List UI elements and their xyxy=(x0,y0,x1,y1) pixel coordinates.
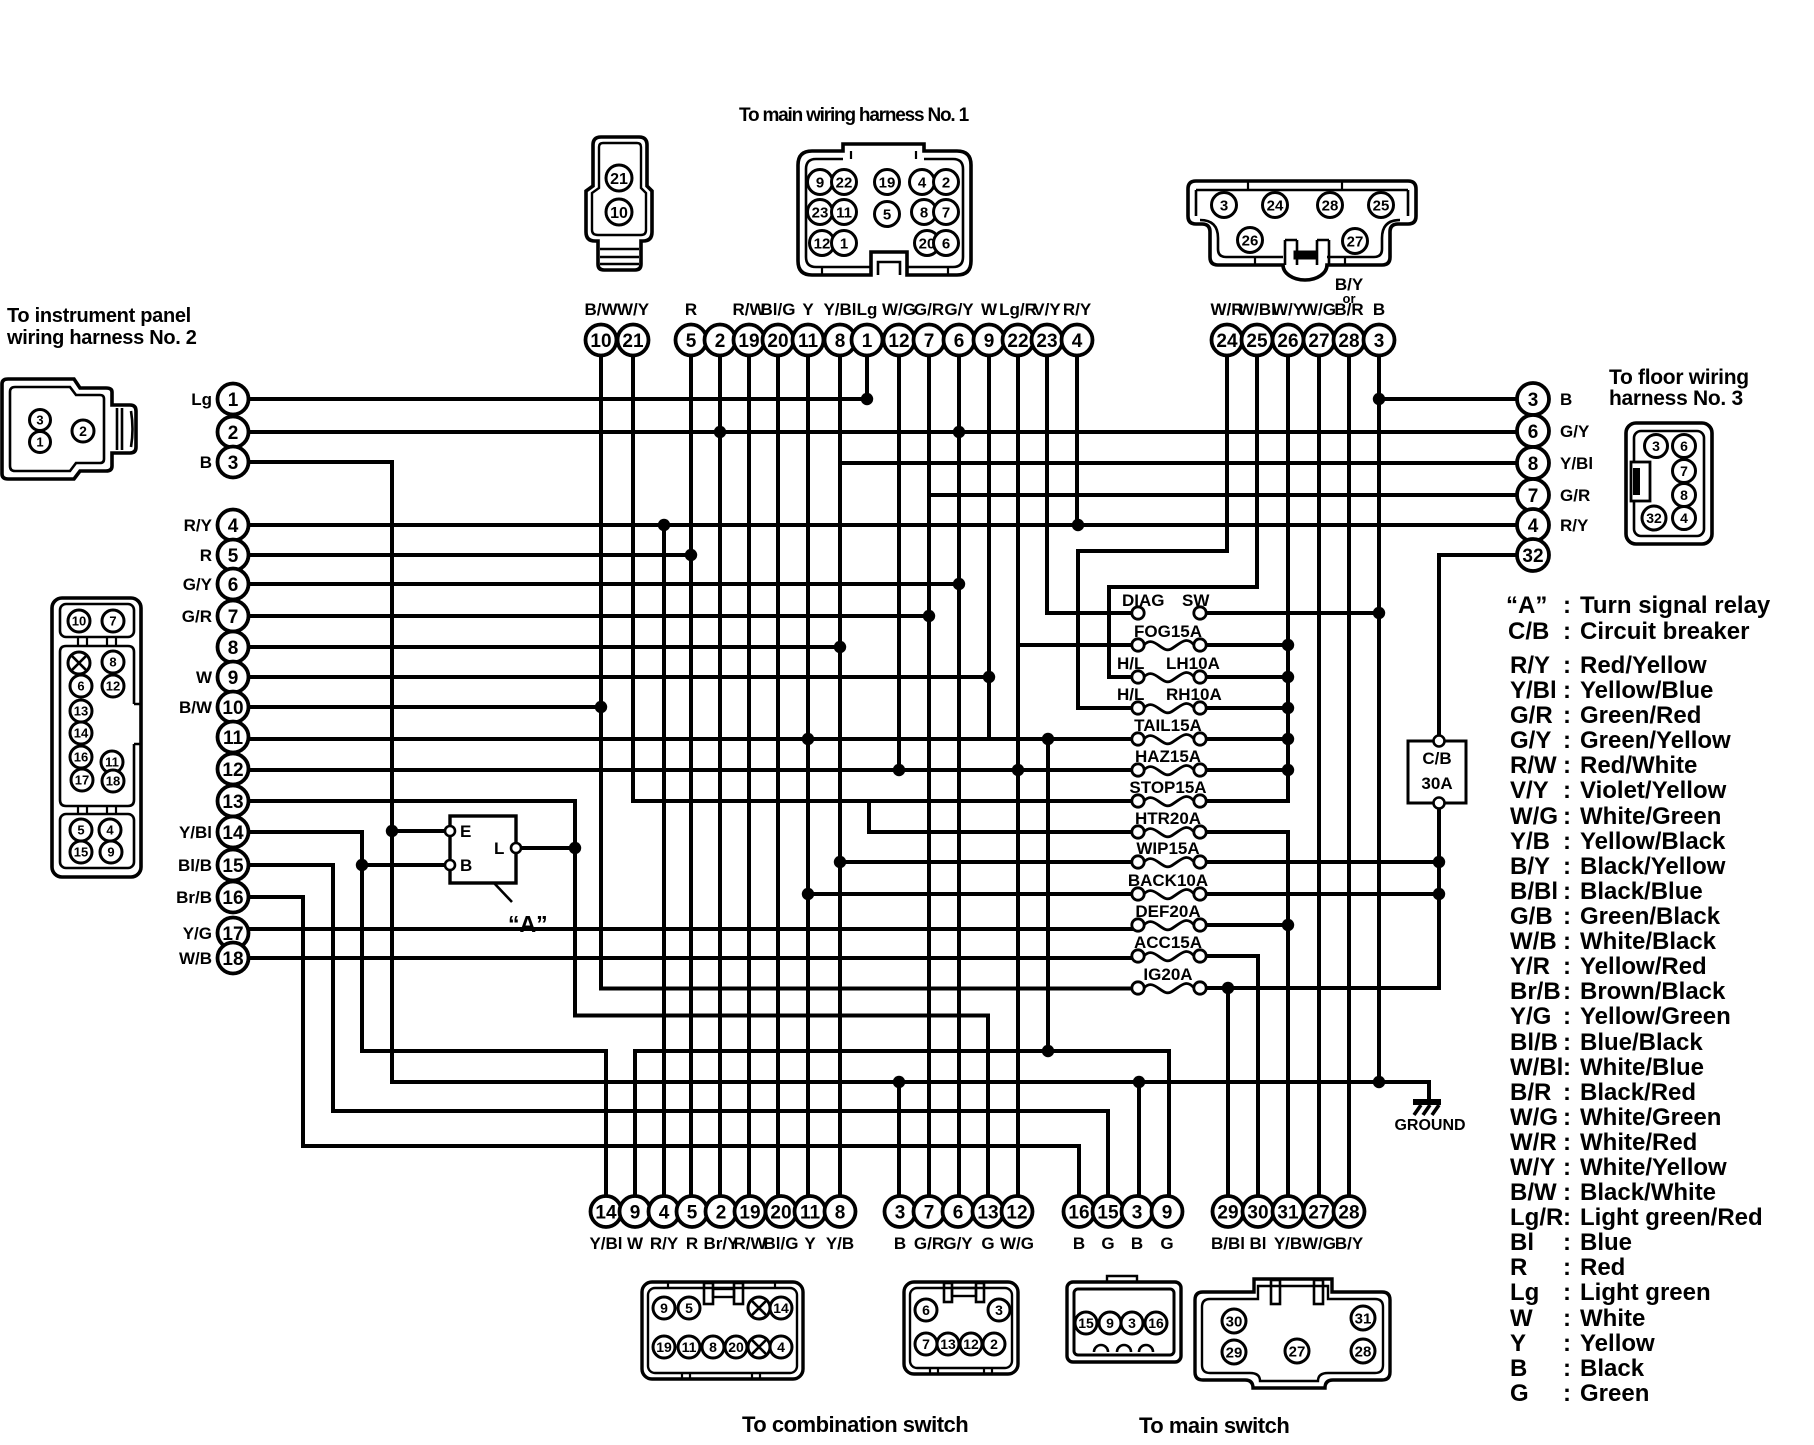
svg-text:White/Yellow: White/Yellow xyxy=(1580,1154,1727,1181)
svg-text:5: 5 xyxy=(685,1300,693,1316)
svg-text:V/Y: V/Y xyxy=(1033,300,1061,319)
svg-text:Br/B: Br/B xyxy=(176,888,212,907)
svg-text::: : xyxy=(1563,677,1571,704)
svg-text:Y/R: Y/R xyxy=(1510,953,1550,980)
svg-text:30A: 30A xyxy=(1421,774,1452,793)
svg-text:Yellow/Blue: Yellow/Blue xyxy=(1580,677,1713,704)
svg-text:31: 31 xyxy=(1355,1310,1372,1327)
svg-text:11: 11 xyxy=(798,331,819,352)
svg-text:“A”: “A” xyxy=(1506,592,1547,619)
svg-text::: : xyxy=(1563,1229,1571,1256)
svg-text:G/R: G/R xyxy=(182,607,212,626)
svg-text:IG20A: IG20A xyxy=(1143,965,1192,984)
svg-text::: : xyxy=(1563,618,1571,645)
svg-text:G/R: G/R xyxy=(1560,486,1590,505)
svg-text:11: 11 xyxy=(800,1202,821,1223)
svg-text:20: 20 xyxy=(728,1339,744,1355)
svg-text:B/W: B/W xyxy=(179,698,213,717)
svg-text:19: 19 xyxy=(738,331,759,352)
svg-text:Br/B: Br/B xyxy=(1510,978,1561,1005)
svg-text:B/Bl: B/Bl xyxy=(1211,1234,1245,1253)
svg-text::: : xyxy=(1563,1279,1571,1306)
svg-text:26: 26 xyxy=(1242,232,1259,249)
svg-text:R/Y: R/Y xyxy=(1063,300,1092,319)
svg-text:1: 1 xyxy=(36,435,43,450)
svg-text:9: 9 xyxy=(228,668,239,689)
svg-text:3: 3 xyxy=(228,453,239,474)
svg-text:29: 29 xyxy=(1217,1202,1238,1223)
svg-text:3: 3 xyxy=(895,1202,906,1223)
svg-text:3: 3 xyxy=(36,413,43,428)
svg-text:32: 32 xyxy=(1522,546,1543,567)
svg-text:G/Y: G/Y xyxy=(1560,422,1590,441)
svg-text:14: 14 xyxy=(773,1300,789,1316)
svg-text::: : xyxy=(1563,828,1571,855)
svg-text::: : xyxy=(1563,1380,1571,1407)
svg-text::: : xyxy=(1563,903,1571,930)
svg-text:TAIL15A: TAIL15A xyxy=(1134,716,1202,735)
svg-text:4: 4 xyxy=(1072,331,1083,352)
svg-text:G/R: G/R xyxy=(1510,702,1553,729)
svg-text:12: 12 xyxy=(222,760,243,781)
svg-text:Black/White: Black/White xyxy=(1580,1179,1716,1206)
svg-text:24: 24 xyxy=(1267,197,1284,214)
svg-text:23: 23 xyxy=(812,204,829,221)
svg-text:6: 6 xyxy=(1680,438,1688,454)
svg-text::: : xyxy=(1563,1154,1571,1181)
svg-text:3: 3 xyxy=(1132,1202,1143,1223)
svg-text:8: 8 xyxy=(709,1339,717,1355)
svg-text:15: 15 xyxy=(1078,1315,1094,1331)
svg-text:Black/Red: Black/Red xyxy=(1580,1079,1696,1106)
svg-text::: : xyxy=(1563,1129,1571,1156)
svg-text:W/G: W/G xyxy=(1302,1234,1336,1253)
svg-text::: : xyxy=(1563,1054,1571,1081)
svg-text:B/R: B/R xyxy=(1510,1079,1551,1106)
svg-text:W: W xyxy=(196,668,213,687)
svg-text:2: 2 xyxy=(79,423,87,439)
svg-text:6: 6 xyxy=(228,575,239,596)
svg-text:6: 6 xyxy=(953,1202,964,1223)
svg-text::: : xyxy=(1563,928,1571,955)
svg-text::: : xyxy=(1563,777,1571,804)
svg-text:21: 21 xyxy=(610,171,628,188)
svg-text:RH10A: RH10A xyxy=(1166,685,1222,704)
svg-text:Black: Black xyxy=(1580,1355,1645,1382)
svg-text:Lg/R: Lg/R xyxy=(999,300,1037,319)
svg-text:23: 23 xyxy=(1036,331,1057,352)
svg-text:29: 29 xyxy=(1226,1344,1243,1361)
svg-text:R/Y: R/Y xyxy=(1510,652,1550,679)
svg-text:G/Y: G/Y xyxy=(183,575,213,594)
svg-text:4: 4 xyxy=(1528,516,1539,537)
svg-text:Bl/B: Bl/B xyxy=(178,856,212,875)
svg-text::: : xyxy=(1563,803,1571,830)
svg-text:White/Red: White/Red xyxy=(1580,1129,1697,1156)
svg-text:19: 19 xyxy=(879,174,896,191)
svg-text:12: 12 xyxy=(1006,1202,1027,1223)
svg-text:12: 12 xyxy=(106,679,120,694)
svg-text:30: 30 xyxy=(1247,1202,1268,1223)
svg-text:4: 4 xyxy=(1680,510,1688,526)
svg-text:9: 9 xyxy=(1162,1202,1173,1223)
svg-text:To combination switch: To combination switch xyxy=(742,1412,968,1437)
svg-text:Black/Blue: Black/Blue xyxy=(1580,878,1703,905)
svg-text:STOP15A: STOP15A xyxy=(1129,778,1206,797)
svg-text:13: 13 xyxy=(222,792,243,813)
svg-text:WIP15A: WIP15A xyxy=(1136,839,1199,858)
svg-text:7: 7 xyxy=(942,204,950,221)
svg-text:1: 1 xyxy=(862,331,873,352)
svg-text:HAZ15A: HAZ15A xyxy=(1135,747,1201,766)
svg-text:Green: Green xyxy=(1580,1380,1649,1407)
svg-text:Yellow: Yellow xyxy=(1580,1330,1655,1357)
svg-text:Lg: Lg xyxy=(191,390,212,409)
svg-text:W/Y: W/Y xyxy=(1510,1154,1555,1181)
svg-text:9: 9 xyxy=(107,845,114,860)
svg-text:27: 27 xyxy=(1308,1202,1329,1223)
svg-text:W/G: W/G xyxy=(1510,803,1558,830)
svg-text:3: 3 xyxy=(1220,197,1228,214)
svg-text:31: 31 xyxy=(1277,1202,1299,1223)
svg-text:Green/Red: Green/Red xyxy=(1580,702,1701,729)
svg-text:12: 12 xyxy=(963,1336,979,1352)
svg-text:7: 7 xyxy=(1528,486,1539,507)
svg-text:6: 6 xyxy=(922,1302,930,1318)
svg-text:Bl: Bl xyxy=(1510,1229,1534,1256)
svg-text:15: 15 xyxy=(1097,1202,1119,1223)
svg-text:G/R: G/R xyxy=(914,1234,944,1253)
svg-text:HTR20A: HTR20A xyxy=(1135,809,1201,828)
svg-text:G: G xyxy=(1160,1234,1173,1253)
svg-text:8: 8 xyxy=(835,331,846,352)
svg-text:B/Bl: B/Bl xyxy=(1510,878,1558,905)
svg-text:20: 20 xyxy=(770,1202,791,1223)
svg-text::: : xyxy=(1563,978,1571,1005)
svg-text:Turn signal relay: Turn signal relay xyxy=(1580,592,1771,619)
svg-text:Blue/Black: Blue/Black xyxy=(1580,1029,1703,1056)
svg-text:White/Blue: White/Blue xyxy=(1580,1054,1704,1081)
svg-text:6: 6 xyxy=(1528,422,1539,443)
svg-text:27: 27 xyxy=(1289,1343,1306,1360)
svg-text:Brown/Black: Brown/Black xyxy=(1580,978,1726,1005)
svg-text:Light green/Red: Light green/Red xyxy=(1580,1204,1763,1231)
svg-text:B: B xyxy=(1131,1234,1143,1253)
svg-text:21: 21 xyxy=(622,331,644,352)
svg-text:14: 14 xyxy=(595,1202,617,1223)
svg-text:1: 1 xyxy=(228,390,239,411)
svg-text:3: 3 xyxy=(1652,438,1660,454)
svg-text:5: 5 xyxy=(686,331,697,352)
svg-text:Y: Y xyxy=(804,1234,816,1253)
svg-text:Y/B: Y/B xyxy=(1274,1234,1302,1253)
svg-text:E: E xyxy=(460,822,471,841)
svg-text:26: 26 xyxy=(1277,331,1298,352)
svg-text:R: R xyxy=(686,1234,698,1253)
svg-text::: : xyxy=(1563,727,1571,754)
svg-text:B: B xyxy=(1073,1234,1085,1253)
svg-text:B/Y: B/Y xyxy=(1335,1234,1364,1253)
svg-text:Green/Yellow: Green/Yellow xyxy=(1580,727,1731,754)
svg-text:B: B xyxy=(1510,1355,1527,1382)
svg-text:Bl/B: Bl/B xyxy=(1510,1029,1558,1056)
svg-text:12: 12 xyxy=(888,331,909,352)
svg-text:11: 11 xyxy=(105,755,119,770)
svg-text:28: 28 xyxy=(1338,331,1359,352)
svg-text:ACC15A: ACC15A xyxy=(1134,933,1202,952)
svg-text:11: 11 xyxy=(682,1339,697,1355)
svg-text:6: 6 xyxy=(954,331,965,352)
svg-text:16: 16 xyxy=(74,750,88,765)
svg-text:Black/Yellow: Black/Yellow xyxy=(1580,853,1726,880)
svg-text:Bl/G: Bl/G xyxy=(761,300,796,319)
svg-text:White: White xyxy=(1580,1305,1645,1332)
svg-text:BACK10A: BACK10A xyxy=(1128,871,1208,890)
svg-text:W/G: W/G xyxy=(882,300,916,319)
svg-text:C/B: C/B xyxy=(1508,618,1549,645)
svg-text:14: 14 xyxy=(74,726,89,741)
svg-text:22: 22 xyxy=(1007,331,1028,352)
svg-text:2: 2 xyxy=(942,174,950,191)
svg-text:G/R: G/R xyxy=(914,300,944,319)
svg-text:W/R: W/R xyxy=(1510,1129,1557,1156)
svg-text:G/Y: G/Y xyxy=(943,1234,973,1253)
svg-text:8: 8 xyxy=(109,655,116,670)
svg-text::: : xyxy=(1563,1254,1571,1281)
svg-text:9: 9 xyxy=(984,331,995,352)
svg-text:15: 15 xyxy=(74,845,88,860)
svg-text:H/L: H/L xyxy=(1117,685,1144,704)
svg-text:17: 17 xyxy=(75,773,89,788)
svg-text:Y/B: Y/B xyxy=(826,1234,854,1253)
svg-text:14: 14 xyxy=(222,823,244,844)
svg-text:To main wiring harness No. 1: To main wiring harness No. 1 xyxy=(739,105,970,126)
svg-text:6: 6 xyxy=(942,235,950,252)
svg-text:W/Bl: W/Bl xyxy=(1238,300,1276,319)
svg-text:4: 4 xyxy=(918,174,927,191)
svg-text:3: 3 xyxy=(1374,331,1385,352)
svg-text:To instrument panel: To instrument panel xyxy=(7,305,191,327)
svg-text:“A”: “A” xyxy=(508,911,548,937)
svg-text:4: 4 xyxy=(659,1202,670,1223)
svg-text:harness No. 3: harness No. 3 xyxy=(1609,387,1743,410)
svg-text:25: 25 xyxy=(1373,197,1390,214)
svg-text:R/Y: R/Y xyxy=(650,1234,679,1253)
svg-text:R/W: R/W xyxy=(733,1234,767,1253)
svg-text:20: 20 xyxy=(767,331,788,352)
svg-text:2: 2 xyxy=(715,331,726,352)
svg-text:28: 28 xyxy=(1322,197,1339,214)
svg-text:H/L: H/L xyxy=(1117,654,1144,673)
svg-text:wiring harness No. 2: wiring harness No. 2 xyxy=(6,327,197,349)
svg-text:C/B: C/B xyxy=(1422,749,1451,768)
svg-text:White/Green: White/Green xyxy=(1580,803,1721,830)
svg-text::: : xyxy=(1563,752,1571,779)
svg-text:W: W xyxy=(627,1234,644,1253)
svg-text:Lg/R: Lg/R xyxy=(1510,1204,1563,1231)
svg-text::: : xyxy=(1563,853,1571,880)
svg-text:W/Y: W/Y xyxy=(1272,300,1305,319)
svg-text::: : xyxy=(1563,878,1571,905)
svg-text:DEF20A: DEF20A xyxy=(1135,902,1200,921)
svg-text:G: G xyxy=(1101,1234,1114,1253)
svg-text:B/W: B/W xyxy=(1510,1179,1557,1206)
svg-text:13: 13 xyxy=(940,1336,956,1352)
svg-text:Red: Red xyxy=(1580,1254,1625,1281)
svg-text:7: 7 xyxy=(109,614,116,629)
svg-text:R: R xyxy=(200,546,212,565)
svg-text:G/Y: G/Y xyxy=(1510,727,1551,754)
svg-text:2: 2 xyxy=(990,1336,998,1352)
svg-text:8: 8 xyxy=(920,204,928,221)
svg-text:W/Bl: W/Bl xyxy=(1510,1054,1563,1081)
svg-text:Light green: Light green xyxy=(1580,1279,1711,1306)
svg-text::: : xyxy=(1563,1079,1571,1106)
svg-text:Y/Bl: Y/Bl xyxy=(823,300,856,319)
svg-text:7: 7 xyxy=(924,1202,935,1223)
svg-text:W/B: W/B xyxy=(179,949,212,968)
svg-text::: : xyxy=(1563,953,1571,980)
svg-text:27: 27 xyxy=(1347,233,1364,250)
svg-text::: : xyxy=(1563,1305,1571,1332)
svg-text:Green/Black: Green/Black xyxy=(1580,903,1721,930)
svg-text:10: 10 xyxy=(590,331,611,352)
svg-text:3: 3 xyxy=(995,1302,1003,1318)
svg-text::: : xyxy=(1563,1029,1571,1056)
svg-text:11: 11 xyxy=(836,204,852,221)
svg-text:Yellow/Green: Yellow/Green xyxy=(1580,1003,1731,1030)
svg-text:FOG15A: FOG15A xyxy=(1134,622,1202,641)
svg-text:W/B: W/B xyxy=(1510,928,1557,955)
svg-text:R/Y: R/Y xyxy=(184,516,213,535)
svg-text:13: 13 xyxy=(74,704,88,719)
svg-text:Blue: Blue xyxy=(1580,1229,1632,1256)
svg-text:9: 9 xyxy=(630,1202,641,1223)
svg-text:18: 18 xyxy=(106,774,120,789)
svg-text:R/Y: R/Y xyxy=(1560,516,1589,535)
svg-text::: : xyxy=(1563,652,1571,679)
svg-text:4: 4 xyxy=(106,823,114,838)
svg-text:B: B xyxy=(894,1234,906,1253)
svg-text:W/Y: W/Y xyxy=(617,300,650,319)
svg-text:G/Y: G/Y xyxy=(944,300,974,319)
svg-text:16: 16 xyxy=(1148,1315,1164,1331)
svg-text:Violet/Yellow: Violet/Yellow xyxy=(1580,777,1727,804)
svg-text:Red/Yellow: Red/Yellow xyxy=(1580,652,1707,679)
svg-text:Yellow/Red: Yellow/Red xyxy=(1580,953,1707,980)
svg-text:32: 32 xyxy=(1646,510,1662,526)
svg-text:28: 28 xyxy=(1338,1202,1359,1223)
svg-text:3: 3 xyxy=(1128,1315,1136,1331)
svg-text:G: G xyxy=(1510,1380,1529,1407)
svg-text:8: 8 xyxy=(1680,487,1688,503)
svg-text:7: 7 xyxy=(1680,463,1688,479)
svg-text:9: 9 xyxy=(816,174,824,191)
svg-text:8: 8 xyxy=(1528,454,1539,475)
svg-text:SW: SW xyxy=(1182,591,1210,610)
svg-text:DIAG: DIAG xyxy=(1122,591,1165,610)
svg-text:5: 5 xyxy=(883,206,891,223)
svg-text:7: 7 xyxy=(922,1336,930,1352)
svg-text:Red/White: Red/White xyxy=(1580,752,1697,779)
svg-text:9: 9 xyxy=(660,1300,668,1316)
svg-text:G/B: G/B xyxy=(1510,903,1553,930)
svg-text:Y: Y xyxy=(1510,1330,1526,1357)
svg-text:19: 19 xyxy=(739,1202,760,1223)
svg-text:Lg: Lg xyxy=(1510,1279,1539,1306)
svg-text:GROUND: GROUND xyxy=(1394,1117,1465,1134)
svg-text:4: 4 xyxy=(777,1339,785,1355)
svg-text:12: 12 xyxy=(814,235,831,252)
svg-text:Y: Y xyxy=(802,300,814,319)
svg-text:R: R xyxy=(1510,1254,1527,1281)
svg-text:Yellow/Black: Yellow/Black xyxy=(1580,828,1726,855)
svg-text:24: 24 xyxy=(1216,331,1238,352)
svg-text::: : xyxy=(1563,592,1571,619)
svg-text:R/W: R/W xyxy=(1510,752,1557,779)
svg-text:To floor wiring: To floor wiring xyxy=(1609,366,1749,389)
svg-text:W/G: W/G xyxy=(1302,300,1336,319)
svg-text:28: 28 xyxy=(1355,1343,1372,1360)
svg-text::: : xyxy=(1563,1204,1571,1231)
svg-text:8: 8 xyxy=(835,1202,846,1223)
svg-text:5: 5 xyxy=(687,1202,698,1223)
svg-text:15: 15 xyxy=(222,856,244,877)
svg-text:W: W xyxy=(1510,1305,1533,1332)
svg-text::: : xyxy=(1563,1330,1571,1357)
svg-text::: : xyxy=(1563,1179,1571,1206)
svg-text:1: 1 xyxy=(840,235,848,252)
svg-text:B: B xyxy=(1560,390,1572,409)
svg-text:B: B xyxy=(460,856,472,875)
svg-text::: : xyxy=(1563,1104,1571,1131)
svg-text:16: 16 xyxy=(1068,1202,1089,1223)
svg-text:B/Y: B/Y xyxy=(1510,853,1550,880)
svg-text:Lg: Lg xyxy=(857,300,878,319)
svg-text:Circuit breaker: Circuit breaker xyxy=(1580,618,1749,645)
svg-text:25: 25 xyxy=(1246,331,1268,352)
svg-text:10: 10 xyxy=(72,614,86,629)
svg-text:16: 16 xyxy=(222,888,243,909)
svg-text::: : xyxy=(1563,1355,1571,1382)
svg-text:10: 10 xyxy=(222,698,243,719)
svg-text:White/Green: White/Green xyxy=(1580,1104,1721,1131)
svg-text:R: R xyxy=(685,300,697,319)
svg-text:G: G xyxy=(981,1234,994,1253)
svg-text:White/Black: White/Black xyxy=(1580,928,1717,955)
svg-text::: : xyxy=(1563,1003,1571,1030)
svg-text:2: 2 xyxy=(228,423,239,444)
svg-text:27: 27 xyxy=(1308,331,1329,352)
svg-text:2: 2 xyxy=(716,1202,727,1223)
svg-text:6: 6 xyxy=(77,679,84,694)
svg-text:W/G: W/G xyxy=(1000,1234,1034,1253)
svg-text:10: 10 xyxy=(610,205,628,222)
svg-text::: : xyxy=(1563,702,1571,729)
svg-text:Y/Bl: Y/Bl xyxy=(1560,454,1593,473)
svg-text:V/Y: V/Y xyxy=(1510,777,1549,804)
svg-text:B: B xyxy=(200,453,212,472)
svg-text:Y/Bl: Y/Bl xyxy=(589,1234,622,1253)
svg-text:22: 22 xyxy=(836,174,853,191)
svg-text:Bl: Bl xyxy=(1250,1234,1267,1253)
svg-text:LH10A: LH10A xyxy=(1166,654,1220,673)
svg-text:19: 19 xyxy=(656,1339,672,1355)
svg-text:8: 8 xyxy=(228,638,239,659)
svg-text:4: 4 xyxy=(228,516,239,537)
svg-text:3: 3 xyxy=(1528,390,1539,411)
svg-text:9: 9 xyxy=(1106,1315,1114,1331)
